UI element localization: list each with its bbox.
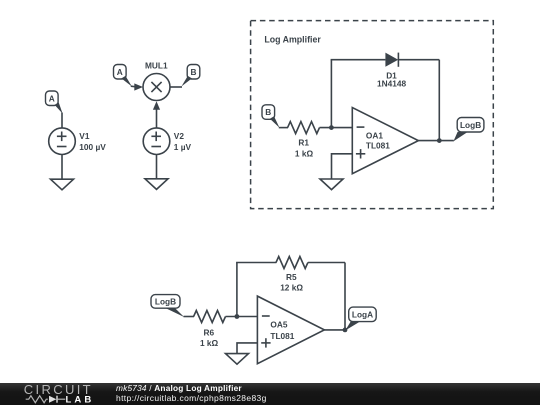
resistor R1 (288, 122, 320, 159)
CircuitLab logo (24, 382, 95, 405)
op-amp OA5 (257, 296, 324, 364)
junction at output (437, 138, 442, 143)
wire A to MUL1 with arrowhead (131, 85, 138, 88)
svg-text:TL081: TL081 (270, 331, 294, 341)
wire V2 to MUL1 with arrowhead (153, 101, 160, 109)
svg-text:Log Amplifier: Log Amplifier (264, 34, 321, 44)
wire MUL1 to B flag (170, 86, 182, 88)
node A flag at V1 (46, 91, 63, 114)
svg-text:100 µV: 100 µV (79, 142, 106, 152)
resistor R5 (276, 257, 308, 293)
node LogA flag (345, 307, 376, 330)
wire op-amp + input to ground (bottom) (237, 343, 257, 354)
svg-text:MUL1: MUL1 (145, 61, 168, 71)
wire R1 to op-amp (320, 127, 353, 129)
wire feedback right vertical (bottom) (344, 263, 346, 330)
svg-text:LAB: LAB (66, 395, 95, 405)
svg-text:B: B (191, 67, 197, 77)
wire feedback left vertical (330, 60, 332, 128)
node B flag at MUL1 output (182, 65, 200, 87)
ground under V2 (145, 179, 168, 190)
wire op-amp + input to ground (332, 154, 353, 179)
wire V1 bottom (61, 155, 63, 180)
wire diode cathode to right vertical (398, 59, 439, 61)
svg-text:B: B (265, 107, 271, 117)
svg-text:http://circuitlab.com/cphp8ms2: http://circuitlab.com/cphp8ms28e83g (116, 393, 267, 403)
svg-text:mk5734 / Analog Log Amplifier: mk5734 / Analog Log Amplifier (116, 383, 242, 393)
Log Amplifier dashed enclosure (251, 21, 494, 209)
ground at OA5 (226, 354, 249, 365)
wire op-amp output (418, 140, 453, 142)
wire LogB to R6 (184, 316, 195, 318)
svg-text:LogB: LogB (155, 297, 176, 307)
wire feedback left vertical (bottom) (236, 263, 238, 317)
wire feedback right vertical (438, 60, 440, 141)
svg-text:A: A (49, 93, 55, 103)
svg-text:R6: R6 (203, 327, 214, 337)
wire V1 top (61, 113, 63, 129)
diode D1 (377, 53, 406, 89)
svg-text:LogA: LogA (352, 310, 373, 320)
wire R6 to op-amp (226, 316, 258, 318)
svg-text:R5: R5 (286, 272, 297, 282)
node B flag input (262, 105, 280, 128)
ground at OA1 (320, 179, 343, 190)
svg-text:TL081: TL081 (366, 141, 390, 151)
junction at R6 / feedback (235, 314, 240, 319)
wire B to R1 (279, 127, 288, 129)
wire to diode anode (331, 59, 386, 61)
junction at R1 / feedback (329, 125, 334, 130)
svg-text:R1: R1 (298, 138, 309, 148)
wire V2 bottom (156, 155, 158, 179)
svg-text:1 kΩ: 1 kΩ (295, 149, 314, 159)
wire R5 to right vertical (308, 262, 345, 264)
ground under V1 (51, 179, 74, 190)
svg-text:1 µV: 1 µV (174, 142, 192, 152)
voltage source V1 (49, 128, 107, 155)
node LogB output flag (453, 118, 484, 142)
svg-text:A: A (117, 67, 123, 77)
resistor R6 (194, 311, 226, 349)
svg-text:LogB: LogB (460, 120, 481, 130)
wire to R5 (236, 262, 276, 264)
node A flag at MUL1 input (114, 65, 132, 87)
svg-text:1N4148: 1N4148 (377, 79, 406, 89)
junction at output (bottom) (343, 328, 348, 333)
node LogB source flag (bottom stage) (151, 295, 184, 317)
svg-text:OA5: OA5 (270, 320, 287, 330)
wire op-amp output (bottom) (324, 329, 345, 331)
op-amp OA1 (352, 108, 418, 174)
svg-text:12 kΩ: 12 kΩ (280, 283, 303, 293)
multiplier MUL1 (143, 61, 170, 101)
voltage source V2 (143, 128, 191, 155)
svg-text:V1: V1 (79, 131, 90, 141)
svg-text:1 kΩ: 1 kΩ (200, 338, 219, 348)
svg-text:V2: V2 (174, 131, 185, 141)
svg-text:OA1: OA1 (366, 131, 383, 141)
